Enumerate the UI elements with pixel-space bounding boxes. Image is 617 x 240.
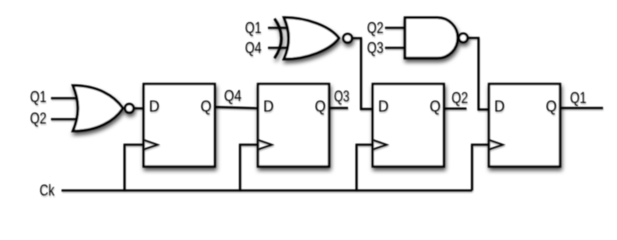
svg-text:D: D	[494, 98, 505, 115]
D flip-flop FF1 body	[144, 84, 215, 167]
wire Ck main line	[62, 189, 473, 191]
svg-text:Q3: Q3	[334, 89, 350, 106]
XNOR gate body	[284, 18, 339, 60]
svg-text:Q: Q	[546, 98, 557, 115]
NAND output bubble	[459, 34, 468, 43]
wire FF3 Q stub (net Q2)	[444, 108, 467, 110]
FF4 clock triangle	[489, 140, 503, 150]
wire FF2 Q stub (net Q3)	[329, 107, 348, 109]
NOR output bubble	[125, 104, 134, 113]
wire Ck riser to FF1 clock	[125, 145, 145, 191]
svg-text:D: D	[263, 98, 274, 115]
svg-text:Q1: Q1	[570, 90, 587, 107]
wire NAND output to FF4 D	[468, 38, 491, 110]
wire Q1 to XNOR input	[268, 27, 289, 29]
svg-text:Q1: Q1	[30, 89, 47, 106]
svg-text:Q1: Q1	[245, 20, 262, 37]
wire Ck riser to FF3 clock	[357, 145, 374, 191]
svg-text:D: D	[378, 98, 389, 115]
svg-text:Q2: Q2	[452, 90, 469, 107]
svg-text:Ck: Ck	[40, 182, 55, 199]
XNOR output bubble	[343, 34, 352, 43]
FF3 clock triangle	[373, 140, 387, 150]
wire Ck riser to FF2 clock	[240, 145, 259, 191]
D flip-flop FF4 body	[489, 84, 560, 167]
wire Q3 to NAND input	[385, 47, 407, 49]
svg-text:Q2: Q2	[30, 111, 47, 128]
wire XNOR output to FF3 D	[352, 38, 374, 109]
wire Q2 to NAND input	[385, 27, 407, 29]
svg-text:Q: Q	[201, 98, 212, 115]
D flip-flop FF3 body	[373, 84, 444, 167]
svg-text:D: D	[149, 98, 160, 115]
svg-text:Q4: Q4	[224, 88, 242, 105]
svg-text:Q2: Q2	[367, 20, 384, 37]
wire Q1 to NOR input	[51, 97, 81, 99]
D flip-flop FF2 body	[258, 84, 329, 167]
FF1 clock triangle	[144, 140, 158, 150]
NAND gate body	[405, 18, 458, 58]
wire Q2 to NOR input	[51, 118, 81, 120]
wire Ck riser to FF4 clock	[472, 145, 490, 191]
wire FF1 Q to FF2 D (net Q4)	[215, 107, 259, 108]
svg-text:Q4: Q4	[245, 40, 262, 57]
svg-text:Q3: Q3	[367, 40, 384, 57]
wire NOR output to FF1 D	[134, 107, 145, 109]
svg-text:Q: Q	[315, 98, 326, 115]
NOR gate body	[73, 86, 123, 131]
svg-text:Q: Q	[430, 98, 441, 115]
FF2 clock triangle	[258, 140, 272, 150]
wire Q4 to XNOR input	[268, 47, 289, 49]
wire FF4 Q output (net Q1)	[560, 107, 603, 109]
XNOR extra input arc	[275, 19, 282, 59]
